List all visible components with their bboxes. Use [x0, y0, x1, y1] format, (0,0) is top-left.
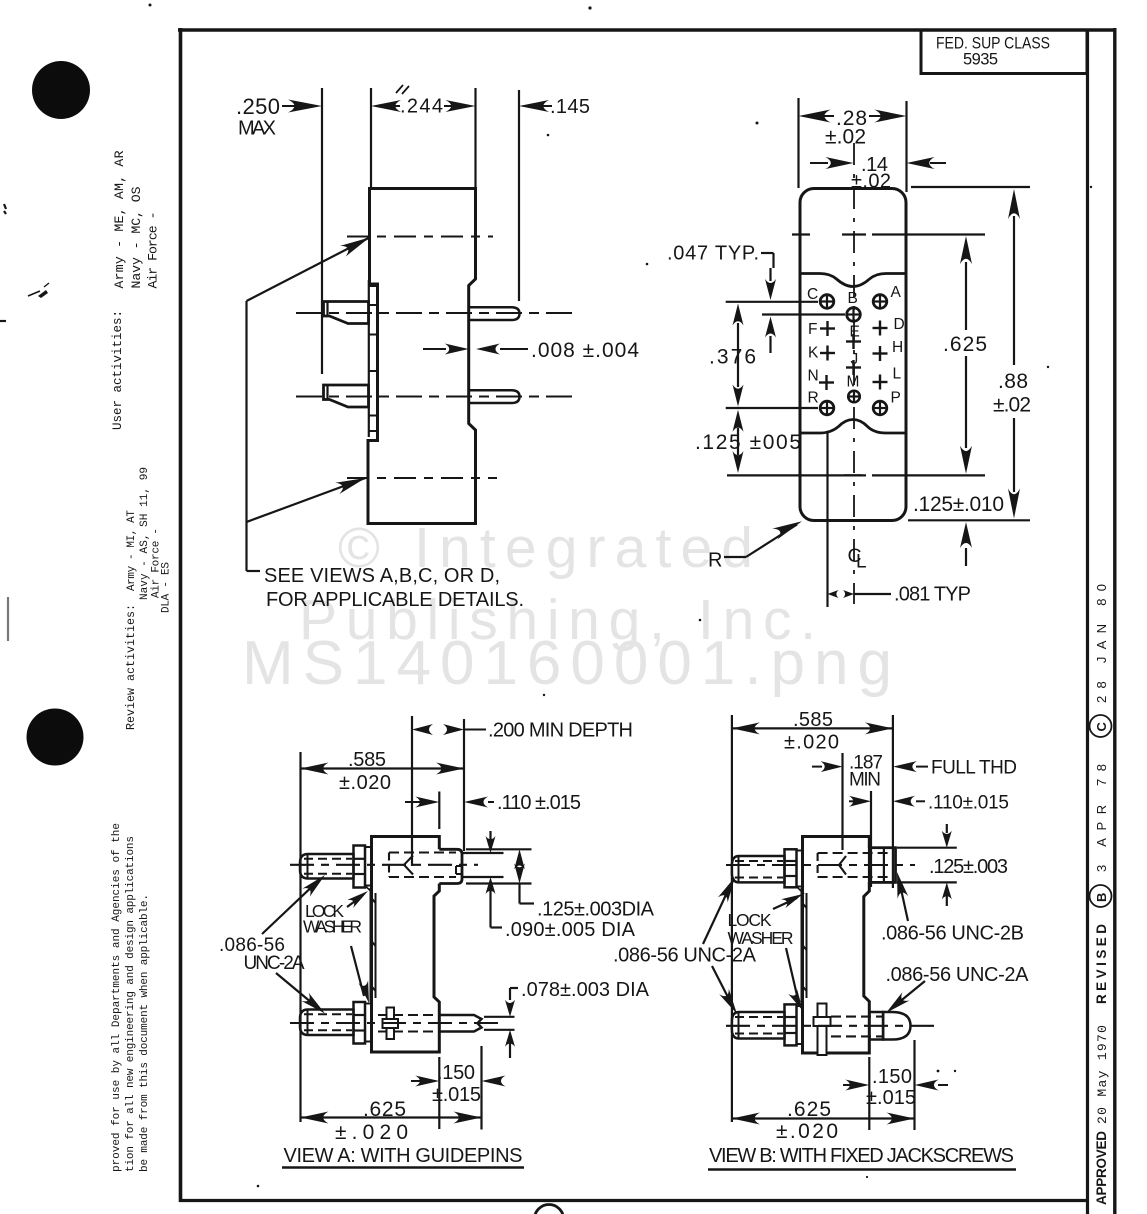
contact F — [820, 321, 835, 336]
svg-text:WASHER: WASHER — [303, 917, 362, 937]
top mounting hole cross — [792, 233, 907, 235]
contact R — [820, 401, 834, 415]
svg-text:.078±.003 DIA: .078±.003 DIA — [521, 979, 650, 1001]
svg-text:D: D — [894, 316, 905, 333]
svg-text:.376: .376 — [709, 346, 756, 369]
dimension .125 +/-.003 DIA — [466, 849, 655, 920]
dimension .125 +/-.010 — [913, 493, 1004, 566]
svg-text:Navy - MC, OS: Navy - MC, OS — [129, 186, 144, 288]
user activities list — [112, 150, 161, 288]
watermark overlay text — [242, 516, 892, 698]
svg-text:User activities:: User activities: — [111, 310, 125, 430]
svg-text:MS140160001.png: MS140160001.png — [242, 629, 892, 698]
punch hole bottom left — [27, 709, 84, 766]
drawing border frame — [178, 28, 1117, 1214]
centerline top — [347, 235, 493, 237]
label .086-56 UNC-2A left view B — [613, 877, 757, 1014]
socket hole hidden lines view A — [389, 853, 456, 878]
svg-text:be made from this document whe: be made from this document when applicab… — [139, 894, 151, 1172]
dimension .090 +/-.005 DIA — [463, 831, 636, 941]
guide socket barrel view A — [439, 849, 462, 883]
hex nut lower view A — [354, 1002, 366, 1044]
svg-text:±.02: ±.02 — [825, 126, 866, 149]
svg-text:±.020: ±.020 — [776, 1120, 838, 1143]
label LOCK WASHER view A — [303, 891, 369, 1003]
dimension .14 +/-.02 — [810, 154, 946, 193]
lock washer upper view A — [365, 847, 373, 893]
FED. SUP CLASS 5935 title box — [921, 30, 1087, 74]
svg-text:J: J — [851, 351, 859, 368]
threaded hole hidden lines view B — [818, 853, 893, 877]
svg-text:M: M — [847, 374, 860, 391]
centerline symbol CL — [848, 545, 867, 573]
svg-text:.200 MIN DEPTH: .200 MIN DEPTH — [488, 720, 633, 742]
stray tick marks — [396, 85, 409, 94]
svg-text:±.020: ±.020 — [335, 1121, 408, 1144]
contact B — [847, 308, 861, 322]
stray pen mark left margin — [0, 204, 49, 641]
svg-text:Air Force -: Air Force - — [146, 212, 161, 289]
view A flange plate edge — [371, 888, 376, 1002]
label .086-56 UNC-2A view A — [219, 875, 325, 1014]
contact N — [819, 375, 834, 390]
svg-text:±.020: ±.020 — [784, 732, 839, 754]
contact A — [873, 295, 887, 309]
svg-text:.110 ±.015: .110 ±.015 — [497, 792, 581, 814]
svg-text:.585: .585 — [348, 749, 386, 771]
dimension .081 TYP — [828, 584, 972, 606]
dimension .244 — [371, 96, 476, 118]
dimension .078 +/-.003 DIA — [484, 979, 650, 1058]
svg-text:C: C — [807, 286, 818, 303]
view B extension lines — [732, 715, 915, 1130]
svg-text:.88: .88 — [998, 370, 1028, 393]
view B flange plate edge — [802, 888, 807, 1002]
centerline lower view A — [290, 1022, 500, 1024]
dimension .110 +/-.015 view B — [849, 793, 1009, 814]
bottom mounting hole cross — [844, 474, 866, 476]
dimension .88 +/-.02 — [993, 189, 1031, 519]
svg-text:F: F — [808, 321, 817, 338]
jackscrew lower view B — [732, 1012, 785, 1039]
svg-text:L: L — [856, 552, 867, 573]
svg-text:R: R — [708, 550, 722, 572]
svg-text:.625: .625 — [943, 333, 987, 356]
centerline pin row 1 — [296, 312, 578, 314]
side view extension lines — [322, 88, 519, 374]
svg-text:A: A — [891, 284, 902, 301]
view A title — [282, 1145, 524, 1168]
hex nut lower view B — [785, 1004, 797, 1045]
svg-text:20 May 1970: 20 May 1970 — [1095, 1025, 1110, 1124]
svg-text:L: L — [893, 366, 902, 383]
svg-text:FOR APPLICABLE DETAILS.: FOR APPLICABLE DETAILS. — [266, 589, 524, 611]
svg-text:.150: .150 — [437, 1062, 475, 1084]
dimension .110 +/-.015 view A — [405, 792, 581, 814]
centerline pin row 2 — [296, 395, 578, 397]
contact letter labels — [807, 284, 905, 407]
centerline upper view B — [726, 864, 915, 866]
dimension .625 +/-.020 view B — [732, 1098, 915, 1143]
contact pin lower right — [470, 390, 520, 403]
svg-text:MAX: MAX — [238, 118, 276, 140]
view B body outline — [803, 837, 870, 1054]
connector shell face outline — [800, 189, 906, 521]
svg-text:Army - MI, AT: Army - MI, AT — [126, 510, 138, 591]
svg-text:DLA - ES: DLA - ES — [161, 562, 173, 613]
svg-text:Navy - AS, SH 11, 99: Navy - AS, SH 11, 99 — [139, 467, 151, 600]
svg-text:.110±.015: .110±.015 — [928, 793, 1009, 814]
svg-text:5935: 5935 — [963, 51, 998, 69]
lock washer lower view B — [797, 1006, 803, 1044]
svg-text:H: H — [892, 339, 903, 356]
contact column extension below — [826, 433, 828, 607]
svg-text:.086-56 UNC-2A: .086-56 UNC-2A — [886, 964, 1030, 986]
fixed jackscrew pin view B — [831, 1012, 911, 1040]
hex nut upper view A — [354, 846, 366, 888]
svg-text:.125±.003: .125±.003 — [929, 856, 1008, 878]
svg-text:.244: .244 — [400, 96, 443, 118]
dimension .047 TYP — [667, 243, 776, 354]
svg-text:±.02: ±.02 — [993, 394, 1031, 417]
hex nut upper view B — [785, 849, 797, 887]
contact pin upper right — [470, 307, 520, 320]
svg-text:.090±.005 DIA: .090±.005 DIA — [505, 919, 636, 941]
leader to see views note — [247, 238, 370, 572]
svg-text:UNC-2A: UNC-2A — [244, 953, 305, 974]
guide socket upper left — [326, 302, 328, 316]
svg-text:.125±.003DIA: .125±.003DIA — [537, 899, 655, 921]
punch hole top left — [32, 61, 90, 119]
dimension .625 +/-.020 view A — [301, 1098, 482, 1144]
label .086-56 UNC-2A right view B — [886, 964, 1030, 1013]
svg-text:.150: .150 — [872, 1066, 912, 1088]
svg-text:C: C — [1094, 722, 1109, 732]
svg-text:VIEW B: WITH FIXED JACKSCREWS: VIEW B: WITH FIXED JACKSCREWS — [709, 1145, 1014, 1167]
extension line shell top right — [911, 186, 1030, 188]
row extension line B — [762, 313, 845, 315]
contact L — [873, 375, 888, 390]
jackscrew upper view A — [300, 854, 354, 879]
svg-text:Review activities:: Review activities: — [124, 604, 138, 730]
svg-text:±.020: ±.020 — [339, 772, 391, 794]
centerline bottom — [347, 477, 497, 479]
page number balloon bottom — [535, 1205, 564, 1214]
contact P — [873, 401, 887, 415]
guide pin view A — [378, 1015, 482, 1032]
svg-text:.145: .145 — [550, 96, 590, 118]
svg-text:VIEW A: WITH GUIDEPINS: VIEW A: WITH GUIDEPINS — [284, 1145, 523, 1167]
lock washer lower view A — [365, 1004, 372, 1042]
svg-text:.585: .585 — [793, 709, 833, 731]
centerline upper view A — [290, 864, 478, 866]
contact E — [846, 334, 861, 349]
dimension .125 +/-005 — [695, 410, 801, 473]
extension line shell bottom right — [908, 519, 1030, 521]
svg-text:Army - ME, AM, AR: Army - ME, AM, AR — [112, 150, 127, 288]
svg-text:proved for use by all Departme: proved for use by all Departments and Ag… — [111, 823, 123, 1172]
svg-text:N: N — [808, 368, 819, 385]
svg-text:APPROVED: APPROVED — [1094, 1131, 1109, 1205]
svg-text:±.015: ±.015 — [866, 1087, 916, 1109]
dimension .200 MIN DEPTH — [412, 720, 633, 742]
svg-text:LOCK: LOCK — [728, 910, 772, 930]
contact H — [873, 346, 888, 361]
dimension .125 +/-.003 view B — [897, 824, 1008, 906]
svg-text:K: K — [808, 345, 819, 362]
face vertical centerline — [853, 143, 855, 604]
FULL THD leader — [893, 758, 1017, 779]
contact C — [820, 295, 834, 309]
lock washer upper view B — [797, 851, 805, 895]
dimension .150 +/-.015 view B — [843, 1066, 948, 1109]
retaining clip view B — [814, 1004, 831, 1056]
svg-text:.250: .250 — [236, 94, 280, 119]
svg-text:B: B — [848, 290, 858, 307]
jackscrew barrel view B — [869, 848, 895, 883]
contact K — [820, 346, 835, 361]
label LOCK WASHER view B — [728, 894, 804, 1011]
dimension .187 MIN — [812, 753, 883, 791]
row extension line R — [726, 407, 818, 409]
svg-text:±.015: ±.015 — [432, 1084, 481, 1106]
connector body side view — [368, 189, 476, 524]
svg-text:.625: .625 — [363, 1098, 406, 1121]
extension line mounting hole top — [907, 233, 986, 235]
svg-text:P: P — [891, 390, 901, 407]
svg-text:E: E — [850, 324, 860, 341]
view A extension lines — [301, 716, 482, 1130]
svg-text:.125 ±005: .125 ±005 — [695, 431, 801, 454]
label .086-56 UNC-2B — [881, 872, 1024, 945]
approval note text — [111, 823, 151, 1172]
contact D — [873, 321, 888, 336]
svg-text:FULL THD: FULL THD — [931, 758, 1017, 779]
retaining clip view A — [383, 1008, 399, 1040]
face view extension lines top — [799, 98, 907, 192]
svg-text:REVISED: REVISED — [1094, 924, 1109, 1004]
revision column text — [1090, 584, 1112, 1205]
svg-text:R: R — [808, 390, 819, 407]
jackscrew lower view A — [300, 1010, 354, 1036]
dimension .376 — [709, 304, 756, 407]
mounting flange plate side view — [369, 280, 377, 437]
view B title — [708, 1145, 1016, 1170]
svg-text:.081 TYP: .081 TYP — [894, 584, 971, 606]
svg-text:MIN: MIN — [849, 770, 881, 791]
guide socket lower left — [326, 385, 328, 400]
R leader and label — [708, 521, 802, 571]
view A body outline — [372, 837, 440, 1053]
svg-text:.625: .625 — [787, 1098, 831, 1121]
svg-text:tion for all new engineering a: tion for all new engineering and design … — [125, 836, 137, 1172]
dimension .150 +/-.015 view A — [411, 1062, 506, 1106]
svg-text:.125±.010: .125±.010 — [913, 493, 1004, 516]
dimension .145 — [519, 96, 590, 118]
see views note text — [264, 565, 524, 611]
svg-text:B: B — [1094, 893, 1109, 902]
svg-text:.047 TYP.: .047 TYP. — [667, 243, 759, 265]
shell bottom wave contour — [800, 420, 906, 434]
jackscrew upper view B — [732, 856, 785, 882]
bottom extension line across — [727, 474, 985, 476]
svg-text:WASHER: WASHER — [728, 928, 794, 948]
svg-text:28 JAN 80: 28 JAN 80 — [1094, 584, 1109, 703]
dimension .28 +/-.02 — [799, 107, 907, 149]
shell top wave contour — [800, 274, 906, 287]
dimension .250 MAX — [236, 94, 322, 140]
review activities list — [126, 467, 173, 613]
centerline lower view B — [726, 1025, 940, 1027]
dimension .008 +/-.004 — [423, 339, 639, 362]
dimension .625 — [943, 236, 987, 474]
dimension .585 +/-.020 view A — [301, 749, 465, 794]
contact J — [846, 360, 861, 375]
row extension line C — [726, 301, 818, 303]
svg-text:.008 ±.004: .008 ±.004 — [531, 339, 639, 362]
svg-text:.086-56 UNC-2B: .086-56 UNC-2B — [881, 923, 1024, 945]
svg-text:SEE VIEWS A,B,C, OR D,: SEE VIEWS A,B,C, OR D, — [264, 565, 500, 587]
contact M — [848, 391, 860, 403]
dimension .585 +/-.020 view B — [732, 709, 893, 754]
svg-text:3 APR 78: 3 APR 78 — [1094, 764, 1109, 872]
